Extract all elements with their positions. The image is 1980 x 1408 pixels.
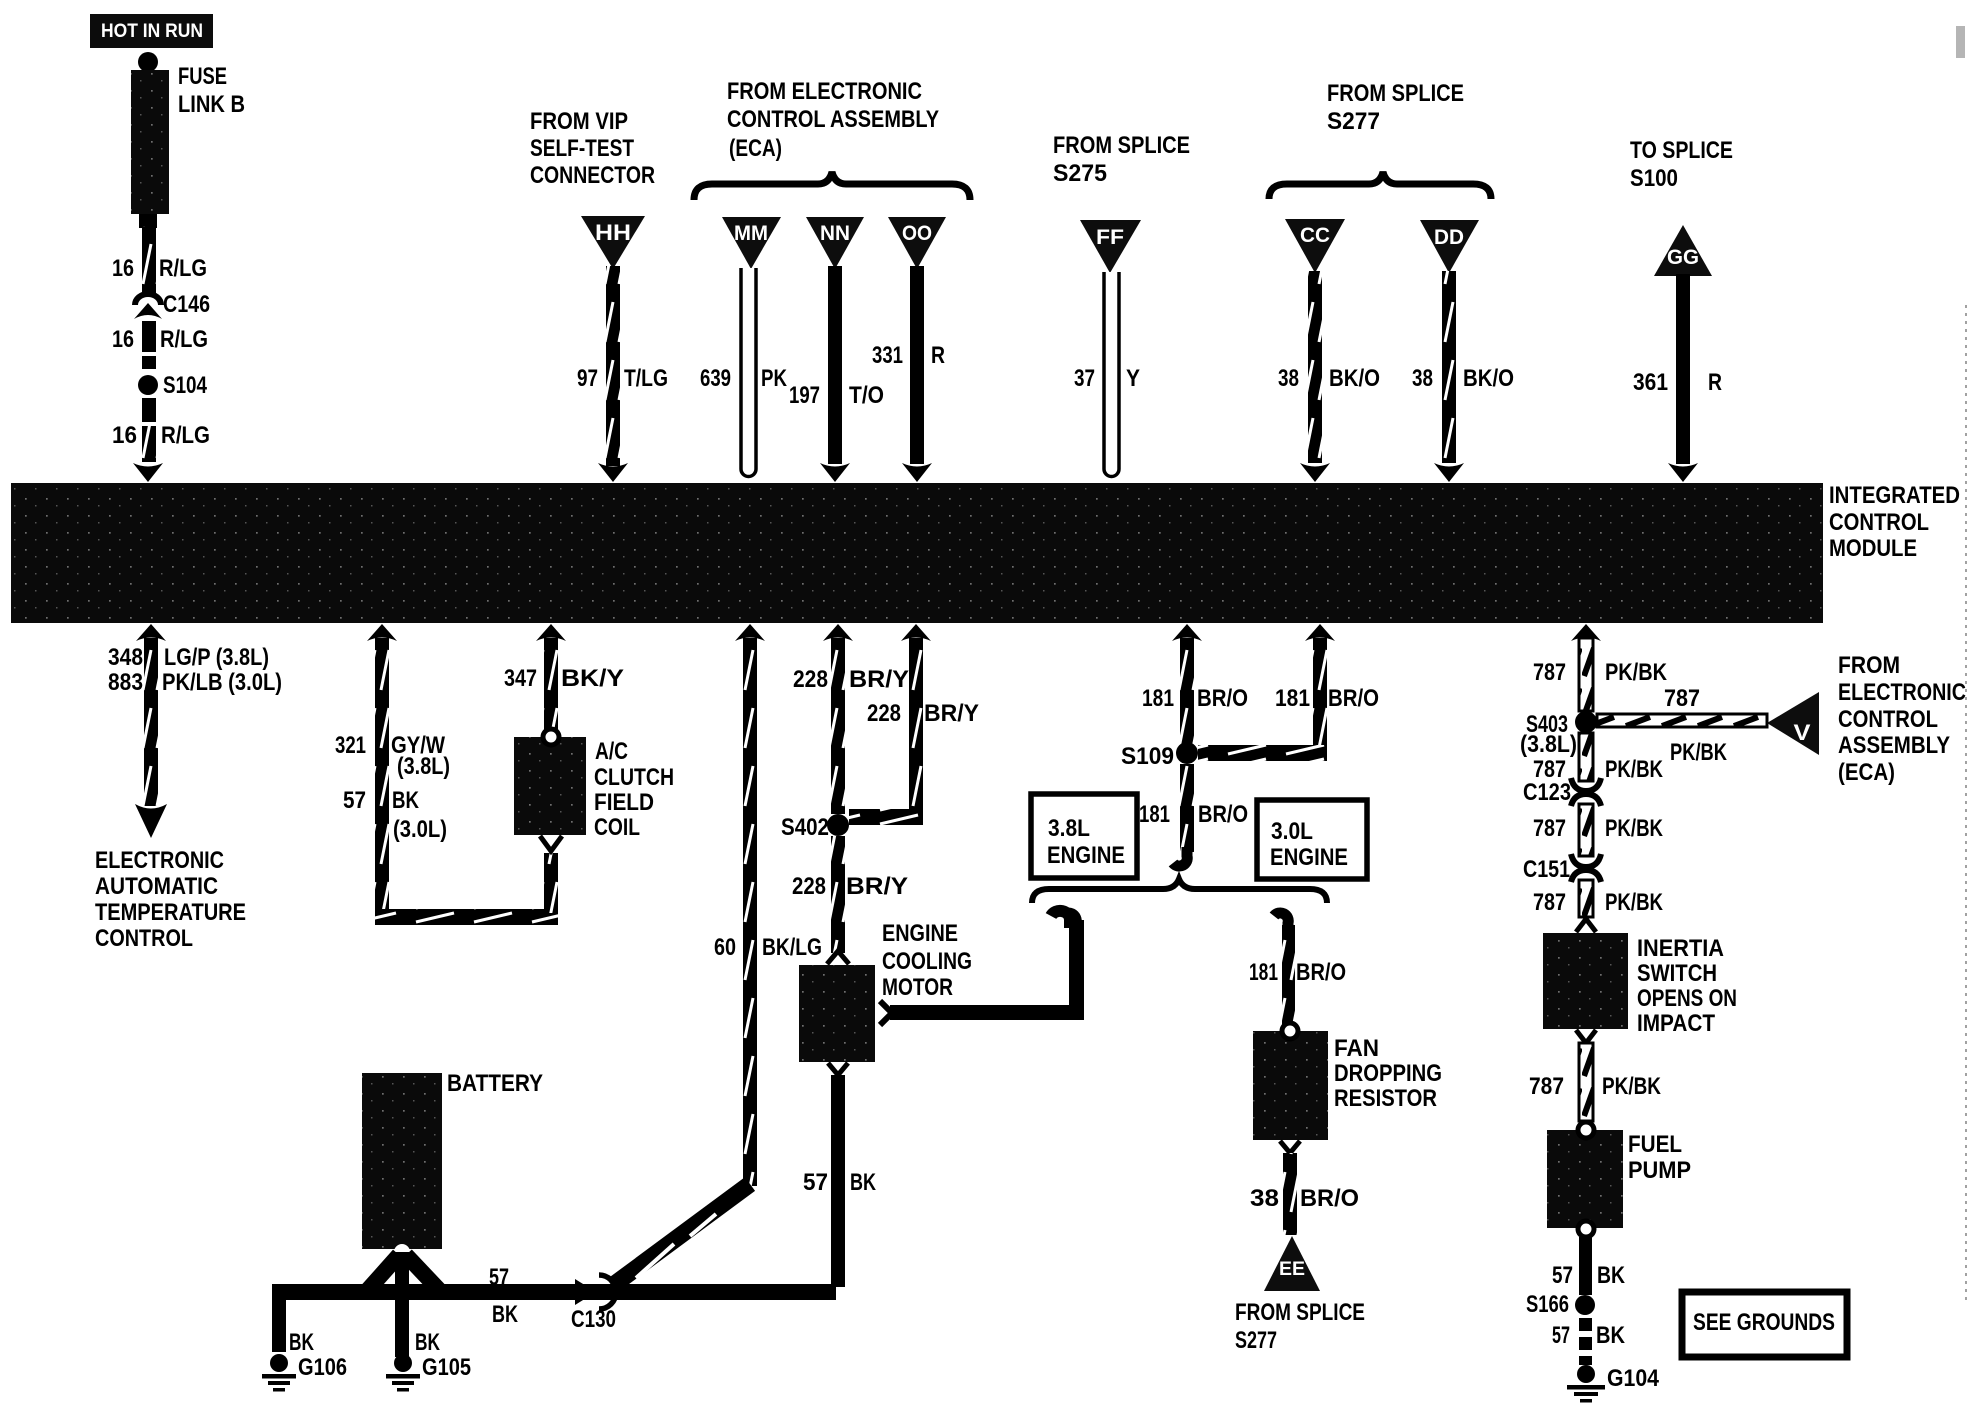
svg-text:(3.8L): (3.8L) [1520, 731, 1577, 758]
connector FF from splice S275 [1080, 220, 1141, 273]
connector CC from splice S277 [1285, 219, 1345, 273]
wire 181 BR/O right branch to S109 [1198, 624, 1379, 761]
svg-text:BR/O: BR/O [1198, 801, 1248, 828]
svg-text:787: 787 [1533, 659, 1566, 686]
svg-text:787: 787 [1664, 685, 1700, 712]
svg-text:ELECTRONIC: ELECTRONIC [95, 847, 224, 874]
wire 16 R/LG S104 to module [112, 398, 210, 482]
svg-text:C146: C146 [163, 291, 210, 318]
scan artifact vertical line right edge [1956, 26, 1966, 1300]
svg-text:FIELD: FIELD [594, 789, 654, 816]
svg-text:BK/LG: BK/LG [762, 934, 822, 961]
svg-text:T/O: T/O [849, 382, 884, 409]
svg-text:639: 639 [700, 365, 731, 392]
svg-text:ENGINE: ENGINE [882, 920, 958, 947]
connector MM [722, 217, 781, 269]
svg-text:BK/O: BK/O [1463, 365, 1514, 392]
wire diagonal from C130 to 60 BK/LG [612, 1184, 750, 1286]
wire 57 BK S166 to G104 (dashed) [1552, 1318, 1626, 1365]
svg-text:FUEL: FUEL [1628, 1131, 1682, 1158]
svg-text:(ECA): (ECA) [729, 135, 782, 162]
svg-text:FROM ELECTRONIC: FROM ELECTRONIC [727, 78, 922, 105]
svg-text:COOLING: COOLING [882, 948, 972, 975]
brace over ECA connectors MM NN OO [694, 172, 970, 200]
svg-text:PK/BK: PK/BK [1670, 739, 1728, 766]
svg-text:PK/BK: PK/BK [1605, 756, 1664, 783]
svg-text:57: 57 [343, 787, 366, 814]
motor output terminal and wire to engine brace [880, 913, 1084, 1025]
svg-text:197: 197 [789, 382, 820, 409]
wire 331 R [872, 266, 945, 482]
svg-text:C151: C151 [1523, 856, 1570, 883]
connector HH from VIP self-test connector [581, 216, 645, 269]
svg-text:181: 181 [1275, 685, 1310, 712]
wire 787 PK/BK C123 to C151 [1533, 804, 1664, 856]
svg-text:DROPPING: DROPPING [1334, 1060, 1442, 1087]
wire 787 PK/BK module to S403 [1533, 624, 1668, 711]
svg-text:16: 16 [112, 422, 137, 449]
svg-text:BR/Y: BR/Y [846, 873, 908, 900]
svg-text:181: 181 [1142, 685, 1174, 712]
wire 228 BR/Y right branch to S402 [849, 624, 979, 825]
svg-text:(3.0L): (3.0L) [393, 816, 447, 843]
wire 181 BR/O module to S109 [1142, 624, 1248, 746]
svg-text:R/LG: R/LG [159, 255, 207, 282]
svg-text:ENGINE: ENGINE [1047, 842, 1125, 869]
label FROM SPLICE S277 [1327, 80, 1464, 135]
connector OO [888, 217, 946, 269]
svg-text:S109: S109 [1121, 743, 1174, 770]
wire 57 BK motor to battery feed [803, 1063, 876, 1287]
svg-text:57: 57 [1552, 1322, 1570, 1349]
svg-text:CONTROL: CONTROL [95, 925, 193, 952]
svg-text:(3.8L): (3.8L) [397, 753, 450, 780]
svg-text:181: 181 [1249, 959, 1278, 986]
wire 787 PK/BK inertia switch to fuel pump [1529, 1030, 1662, 1121]
svg-text:G104: G104 [1607, 1365, 1660, 1392]
svg-text:MOTOR: MOTOR [882, 974, 953, 1001]
svg-text:CONNECTOR: CONNECTOR [530, 162, 655, 189]
svg-text:S275: S275 [1053, 160, 1107, 187]
engine cooling motor [799, 920, 972, 1062]
svg-text:FROM SPLICE: FROM SPLICE [1053, 132, 1190, 159]
svg-text:BR/O: BR/O [1296, 959, 1346, 986]
svg-text:OO: OO [902, 222, 932, 245]
svg-text:FUSE: FUSE [178, 63, 227, 90]
svg-text:38: 38 [1412, 365, 1433, 392]
wire 60 BK/LG [714, 624, 822, 1186]
svg-text:INERTIA: INERTIA [1637, 935, 1724, 962]
svg-text:R/LG: R/LG [161, 422, 210, 449]
svg-text:CLUTCH: CLUTCH [594, 764, 674, 791]
wire 347 BK/Y [504, 624, 624, 730]
inertia switch [1543, 933, 1737, 1037]
wire 181 BR/O S109 to engines [1139, 764, 1248, 866]
svg-text:EE: EE [1279, 1259, 1305, 1280]
svg-text:CC: CC [1300, 224, 1330, 247]
svg-text:FROM VIP: FROM VIP [530, 108, 628, 135]
svg-text:IMPACT: IMPACT [1637, 1010, 1715, 1037]
svg-text:FAN: FAN [1334, 1035, 1379, 1062]
svg-text:S402: S402 [781, 814, 829, 841]
svg-text:CONTROL: CONTROL [1838, 706, 1938, 733]
svg-text:PK/BK: PK/BK [1605, 889, 1664, 916]
wire 38 BK/O left [1278, 271, 1380, 482]
svg-text:NN: NN [820, 222, 850, 245]
connector C146 [134, 291, 210, 319]
svg-text:SEE GROUNDS: SEE GROUNDS [1693, 1309, 1835, 1336]
svg-text:CONTROL: CONTROL [1829, 509, 1929, 536]
splice S109 [1121, 742, 1198, 770]
svg-text:BK: BK [392, 787, 420, 814]
fuel pump [1547, 1122, 1691, 1237]
svg-text:BK: BK [1597, 1262, 1626, 1289]
svg-text:V: V [1794, 720, 1811, 745]
svg-text:BR/Y: BR/Y [849, 666, 909, 693]
svg-text:RESISTOR: RESISTOR [1334, 1085, 1437, 1112]
svg-text:787: 787 [1533, 815, 1566, 842]
svg-text:S104: S104 [163, 372, 208, 399]
svg-text:BK: BK [492, 1301, 518, 1328]
svg-text:(ECA): (ECA) [1838, 759, 1895, 786]
svg-text:LG/P (3.8L): LG/P (3.8L) [164, 644, 269, 671]
A/C clutch field coil [514, 729, 674, 851]
svg-text:TEMPERATURE: TEMPERATURE [95, 899, 246, 926]
ground G105 [386, 1354, 471, 1392]
wire 787 S403 to ECA connector V [1597, 685, 1767, 766]
svg-text:883: 883 [108, 669, 143, 696]
label TO SPLICE S100 [1630, 137, 1733, 192]
svg-text:R: R [931, 342, 945, 369]
wire 348 LG/P / 883 PK/LB to EATC [108, 624, 282, 838]
svg-text:CONTROL ASSEMBLY: CONTROL ASSEMBLY [727, 106, 939, 133]
wire 361 R [1633, 274, 1722, 482]
wire 37 Y (hollow) [1074, 272, 1140, 477]
svg-text:16: 16 [112, 255, 134, 282]
svg-text:228: 228 [792, 873, 826, 900]
svg-text:348: 348 [108, 644, 143, 671]
power source label HOT IN RUN [90, 14, 213, 48]
brace under engines [1032, 879, 1327, 903]
ground G104 [1567, 1365, 1660, 1403]
svg-text:787: 787 [1533, 889, 1566, 916]
wire 57 BK fuel pump to S166 [1552, 1237, 1626, 1295]
svg-text:SELF-TEST: SELF-TEST [530, 135, 634, 162]
svg-text:LINK B: LINK B [178, 91, 245, 118]
wire 787 PK/BK S403 to C123 [1533, 733, 1664, 783]
svg-text:331: 331 [872, 342, 903, 369]
wire 787 PK/BK C151 to inertia switch [1533, 880, 1664, 932]
svg-text:57: 57 [489, 1264, 509, 1291]
svg-text:MODULE: MODULE [1829, 535, 1917, 562]
svg-text:BATTERY: BATTERY [447, 1070, 543, 1097]
svg-text:Y: Y [1126, 365, 1140, 392]
splice S402 [781, 814, 849, 841]
label FROM VIP SELF-TEST CONNECTOR [530, 108, 655, 189]
svg-text:PK/LB (3.0L): PK/LB (3.0L) [162, 669, 282, 696]
connector C123 [1523, 778, 1601, 806]
svg-text:G106: G106 [298, 1354, 347, 1381]
svg-text:A/C: A/C [595, 738, 628, 765]
splice S104 [138, 372, 208, 399]
battery ground feeds and 57 BK feed wire [272, 1252, 836, 1357]
splice S403 (3.8L) [1520, 711, 1597, 758]
connector C151 [1523, 854, 1601, 883]
svg-text:ELECTRONIC: ELECTRONIC [1838, 679, 1966, 706]
svg-text:OPENS ON: OPENS ON [1637, 985, 1737, 1012]
svg-text:S277: S277 [1235, 1327, 1277, 1354]
svg-text:TO SPLICE: TO SPLICE [1630, 137, 1733, 164]
wire 16 R/LG C146 to S104 [112, 321, 208, 369]
label FROM SPLICE S275 [1053, 132, 1190, 187]
splice S166 [1526, 1291, 1595, 1318]
svg-text:ASSEMBLY: ASSEMBLY [1838, 732, 1950, 759]
svg-text:T/LG: T/LG [624, 365, 668, 392]
svg-text:HOT IN RUN: HOT IN RUN [101, 21, 203, 42]
fuse link B [131, 52, 245, 228]
svg-text:3.0L: 3.0L [1271, 818, 1313, 845]
svg-text:BR/O: BR/O [1328, 685, 1379, 712]
svg-text:37: 37 [1074, 365, 1095, 392]
svg-text:FROM SPLICE: FROM SPLICE [1235, 1299, 1365, 1326]
wire 639 PK (hollow) [700, 268, 788, 477]
svg-text:S166: S166 [1526, 1291, 1569, 1318]
svg-text:228: 228 [867, 700, 901, 727]
note box SEE GROUNDS [1682, 1292, 1847, 1357]
label ELECTRONIC AUTOMATIC TEMPERATURE CONTROL [95, 847, 246, 952]
svg-text:BK: BK [415, 1329, 440, 1356]
svg-text:3.8L: 3.8L [1048, 815, 1090, 842]
svg-text:347: 347 [504, 665, 537, 692]
svg-text:38: 38 [1278, 365, 1299, 392]
svg-text:PUMP: PUMP [1628, 1157, 1691, 1184]
svg-text:DD: DD [1434, 226, 1464, 249]
svg-text:FROM SPLICE: FROM SPLICE [1327, 80, 1464, 107]
label FROM ELECTRONIC CONTROL ASSEMBLY (ECA) [727, 78, 939, 162]
connector V from ECA [1767, 692, 1819, 755]
svg-text:BR/Y: BR/Y [924, 700, 979, 727]
svg-text:181: 181 [1139, 801, 1170, 828]
wire 181 BR/O brace to fan dropping resistor [1249, 913, 1346, 1025]
wire 38 BR/O resistor to EE [1250, 1141, 1359, 1235]
label FROM SPLICE S277 (bottom) [1235, 1299, 1365, 1354]
svg-text:COIL: COIL [594, 814, 640, 841]
svg-text:361: 361 [1633, 369, 1668, 396]
svg-text:BK: BK [1596, 1322, 1626, 1349]
brace over splice S277 connectors CC DD [1269, 172, 1491, 199]
svg-text:PK/BK: PK/BK [1605, 659, 1668, 686]
svg-text:AUTOMATIC: AUTOMATIC [95, 873, 218, 900]
connector GG to splice S100 [1654, 225, 1712, 276]
svg-text:60: 60 [714, 934, 736, 961]
svg-text:G105: G105 [422, 1354, 471, 1381]
connector NN [806, 217, 864, 269]
svg-text:BR/O: BR/O [1300, 1185, 1359, 1212]
fan dropping resistor [1253, 1023, 1442, 1140]
svg-text:228: 228 [793, 666, 828, 693]
svg-text:ENGINE: ENGINE [1270, 844, 1348, 871]
wire 38 BK/O right [1412, 271, 1514, 482]
svg-text:16: 16 [112, 326, 134, 353]
box 3.8L ENGINE [1031, 794, 1137, 878]
ground G106 [262, 1354, 347, 1392]
svg-text:S277: S277 [1327, 108, 1380, 135]
svg-text:PK/BK: PK/BK [1602, 1073, 1662, 1100]
svg-text:57: 57 [803, 1169, 828, 1196]
svg-text:FF: FF [1096, 226, 1124, 249]
svg-text:57: 57 [1552, 1262, 1573, 1289]
svg-text:321: 321 [335, 732, 366, 759]
svg-text:787: 787 [1529, 1073, 1564, 1100]
connector EE from splice S277 [1264, 1236, 1320, 1291]
svg-text:BK: BK [850, 1169, 876, 1196]
svg-text:BR/O: BR/O [1197, 685, 1248, 712]
label FROM ELECTRONIC CONTROL ASSEMBLY (ECA) right [1838, 652, 1966, 786]
svg-text:SWITCH: SWITCH [1637, 960, 1717, 987]
svg-text:MM: MM [734, 222, 768, 245]
svg-text:GG: GG [1667, 246, 1699, 269]
svg-text:S100: S100 [1630, 165, 1678, 192]
wire 197 T/O [789, 266, 884, 482]
hook wire engine brace to motor feed [1051, 911, 1070, 928]
wire 228 BR/Y module to S402 [793, 624, 909, 814]
svg-text:INTEGRATED: INTEGRATED [1829, 482, 1960, 509]
connector C130 [571, 1275, 616, 1333]
svg-text:PK/BK: PK/BK [1605, 815, 1664, 842]
wire 228 BR/Y S402 to motor [792, 836, 908, 964]
svg-text:R: R [1708, 369, 1722, 396]
svg-text:BK/Y: BK/Y [561, 665, 624, 692]
battery [362, 1070, 543, 1260]
svg-text:97: 97 [577, 365, 598, 392]
svg-text:BK: BK [289, 1329, 314, 1356]
connector DD from splice S277 [1420, 220, 1479, 273]
svg-text:C123: C123 [1523, 779, 1571, 806]
integrated control module bar [11, 482, 1960, 623]
wire 321 GY/W (3.8L) / 57 BK (3.0L) [335, 624, 558, 925]
svg-text:38: 38 [1250, 1185, 1279, 1212]
wire 97 T/LG [577, 266, 668, 482]
box 3.0L ENGINE [1257, 800, 1367, 879]
svg-text:HH: HH [595, 220, 631, 245]
wire 16 R/LG fuse link to C146 [112, 226, 207, 296]
svg-text:R/LG: R/LG [160, 326, 208, 353]
svg-text:PK: PK [761, 365, 788, 392]
svg-text:C130: C130 [571, 1306, 616, 1333]
svg-text:FROM: FROM [1838, 652, 1900, 679]
svg-text:BK/O: BK/O [1329, 365, 1380, 392]
